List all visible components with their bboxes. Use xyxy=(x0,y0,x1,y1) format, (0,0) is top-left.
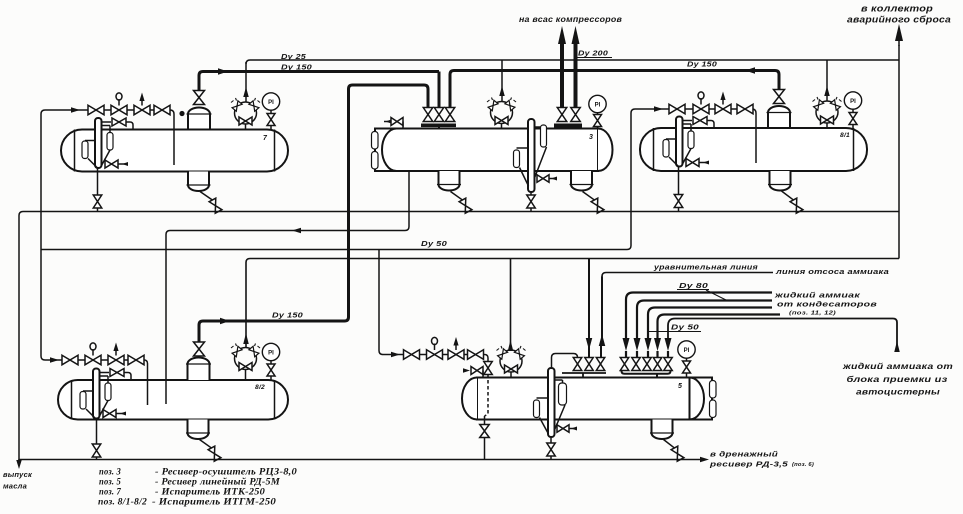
wire: v7 bottom dome drain xyxy=(200,192,213,201)
wire: equalizing drop into vessel 5 xyxy=(588,259,590,339)
nozzle dome: vessel 8/2 bottom xyxy=(188,420,209,440)
svg-text:- Ресивер-осушитель РЦЗ-8,0: - Ресивер-осушитель РЦЗ-8,0 xyxy=(155,467,297,477)
nozzle dome: vessel 7 top xyxy=(188,108,210,131)
wire: float gas line v8/1 xyxy=(683,120,693,122)
svg-text:уравнительная линия: уравнительная линия xyxy=(653,265,758,272)
valve: Dy200 riser 2 xyxy=(571,108,581,122)
svg-text:в коллектор: в коллектор xyxy=(861,4,933,14)
svg-text:(поз. 11, 12): (поз. 11, 12) xyxy=(789,311,836,317)
svg-text:Dy 150: Dy 150 xyxy=(281,65,312,72)
wire: condenser liquid line 4 xyxy=(658,315,781,340)
svg-text:жидкий аммиак: жидкий аммиак xyxy=(774,291,862,300)
valve: v8/2 feed 1 xyxy=(62,355,78,365)
svg-text:от кондесаторов: от кондесаторов xyxy=(777,300,877,309)
control valve: v7 feed xyxy=(111,105,127,115)
safety valves: vessel 3 xyxy=(491,102,513,124)
valve: v7 feed 1 xyxy=(88,105,104,115)
valve: Dy200 riser 1 xyxy=(557,108,567,122)
svg-text:масла: масла xyxy=(3,484,27,491)
valve: PI vessel 5 xyxy=(683,361,691,373)
valve: float gas v8/1 xyxy=(693,117,707,125)
wire: riser b xyxy=(438,72,441,109)
wire: Dy25 safety collector header xyxy=(246,60,899,64)
wire+valve: v3 right dome drain xyxy=(583,192,595,201)
nozzle dome: vessel 5 bottom xyxy=(652,420,673,440)
float column vessel 5 xyxy=(548,368,555,437)
arrow: to emergency dump collector xyxy=(898,40,900,46)
valve: vessel 3 inlet riser a xyxy=(423,108,433,122)
wire: drain header line A to oil release xyxy=(19,212,899,462)
arrow: oil release down xyxy=(18,459,20,462)
valve with actuator: v8/2 feed xyxy=(108,355,124,365)
valve: float feed stub v8/1 xyxy=(686,159,699,167)
valve: v8/2 feed 2 xyxy=(128,355,144,365)
gauge PI vessel 8/1 xyxy=(844,92,861,109)
arrow: feed flow right v8/1 xyxy=(654,106,663,112)
nozzle dome: vessel 8/1 top xyxy=(768,106,790,129)
arrow: to drainage receiver xyxy=(700,457,709,463)
header: left manifold xyxy=(562,372,606,374)
wire: equalizing line E1 xyxy=(246,259,899,348)
wire: Dy200 riser 2 xyxy=(574,44,578,108)
arrow: flow left on Dy150 right xyxy=(745,67,755,74)
svg-text:Dy 150: Dy 150 xyxy=(272,313,303,320)
svg-text:Dy 150: Dy 150 xyxy=(687,62,717,69)
svg-text:Dy 200: Dy 200 xyxy=(578,51,608,58)
svg-text:Dy 25: Dy 25 xyxy=(281,54,306,61)
wire: Dy50 liquid header line C xyxy=(41,246,631,250)
control valve: v5 feed xyxy=(427,350,443,360)
valve: float feed stub v7 xyxy=(105,160,118,168)
valve: vessel 8/2 suction xyxy=(194,342,205,356)
arrow: feed flow right v8/2 xyxy=(50,357,59,363)
valve: vessel 3 top stub xyxy=(384,121,391,123)
vessel 7 body (evaporator ITK-250) xyxy=(61,130,288,172)
wire: v8/1 float drain xyxy=(678,167,680,212)
svg-text:PI: PI xyxy=(850,99,856,105)
wire: v5 left drain xyxy=(484,416,486,460)
float chamber internals vessel 7 xyxy=(95,118,102,168)
wire: ammonia suction line E2 xyxy=(601,277,603,345)
wire: bottom drain header line D xyxy=(19,459,700,461)
header: vessel 3 suction outlet xyxy=(554,124,582,128)
svg-text:поз. 8/1-8/2: поз. 8/1-8/2 xyxy=(98,497,147,507)
wire: v8/2 float drain xyxy=(96,418,98,460)
safety valves: vessel 7 xyxy=(235,102,257,124)
valve: PI vessel 7 xyxy=(267,114,275,126)
svg-text:5: 5 xyxy=(678,383,682,390)
wire: Dy150 suction vessel 8/2 xyxy=(199,317,349,342)
wire: thin riser from vessel 8/2 suction to vessel 3 xyxy=(349,85,429,317)
nozzle dome: vessel 3 bottom right xyxy=(571,171,592,191)
wire: float gas line v7 xyxy=(102,121,112,123)
arrow: v8/2 safety outlet up xyxy=(243,333,249,344)
wire: feed dip tube inside vessel 8/1 xyxy=(755,128,757,163)
wire+valve: v5 dome drain xyxy=(664,440,675,449)
control valve: v8/1 feed xyxy=(693,104,709,114)
wire: vessel 5 safety outlet xyxy=(510,259,512,350)
arrow: reception liquid up xyxy=(894,341,900,352)
svg-text:Dy 80: Dy 80 xyxy=(679,283,708,290)
wire: feed dip tubes inside vessel 8/2 xyxy=(147,380,149,405)
svg-text:PI: PI xyxy=(268,350,274,356)
vessel 8/2 body (evaporator ITGM-250) xyxy=(58,380,288,420)
gauge PI vessel 8/2 xyxy=(262,343,279,360)
svg-text:PI: PI xyxy=(268,100,274,106)
arrow: feed flow right v7 xyxy=(71,107,80,113)
wire: v5 feed dip tube xyxy=(485,380,489,416)
valve: v5 feed 2 xyxy=(468,350,484,360)
arrow: flow right on Dy150 xyxy=(218,68,228,75)
wire: float column link to manifold xyxy=(552,354,578,369)
valve: v5 feed entry xyxy=(484,362,493,375)
svg-text:линия отсоса аммиака: линия отсоса аммиака xyxy=(775,269,889,276)
svg-text:Dy 50: Dy 50 xyxy=(421,241,447,248)
wire: Dy150 suction line vessel 8/1 to vessel 3 xyxy=(450,71,779,109)
valve: v8/2 float drain xyxy=(92,444,101,457)
float chamber internals vessel 8/1 xyxy=(676,117,683,167)
vessel 3 body (receiver-dryer RCZ-8.0) xyxy=(375,129,598,172)
valve: v8/1 float drain xyxy=(674,195,683,208)
valve: v7 dome drain xyxy=(209,198,222,213)
valve: PI vessel 8/1 xyxy=(849,113,857,125)
arrow: safety outlet up v7 xyxy=(243,87,249,97)
wire: Dy50 liquid from reception block xyxy=(668,319,897,352)
arrow: safety outlet up v8/1 xyxy=(824,86,830,96)
float chamber internals vessel 8/2 xyxy=(93,369,100,419)
valve: v8/1 feed 2 xyxy=(737,104,753,114)
gauge PI vessel 7 xyxy=(262,93,279,110)
wire: liquid feed line to vessel 8/1 xyxy=(631,109,756,246)
valve: PI vessel 8/2 xyxy=(267,364,275,376)
svg-text:в дренажный: в дренажный xyxy=(710,450,778,459)
wire: collector riser to flare xyxy=(898,45,900,259)
svg-text:жидкий аммиака от: жидкий аммиака от xyxy=(842,361,954,371)
svg-text:(поз. 6): (поз. 6) xyxy=(792,462,814,468)
wire: vessel 3 safety outlet xyxy=(501,60,503,102)
wire+valve: v3 left dome drain xyxy=(451,192,463,201)
arrow: safety outlet up v3 xyxy=(499,86,505,96)
wire: v3 float drain xyxy=(530,192,532,212)
control valve: v8/2 feed xyxy=(85,355,101,365)
nozzle dome: vessel 8/2 top xyxy=(188,358,210,380)
valve: vessel 7 suction xyxy=(194,91,205,105)
valve: float gas v8/2 xyxy=(110,369,124,377)
vessel 8/1 body (evaporator ITGM-250) xyxy=(640,128,867,171)
nozzle dome: vessel 3 bottom left xyxy=(439,171,460,191)
valve: v8/1 feed 1 xyxy=(669,104,685,114)
header: vessel 3 inlet xyxy=(421,124,456,128)
valve with actuator: v8/1 feed xyxy=(715,104,731,114)
manifold right: valves on vessel 5 xyxy=(620,358,629,371)
float column vessel 3 xyxy=(528,119,535,192)
wire: Dy200 riser 1 xyxy=(560,44,564,108)
wire: liquid feed line to vessel 8/2 xyxy=(41,250,148,406)
nozzle dome: vessel 7 bottom xyxy=(188,172,209,192)
svg-text:3: 3 xyxy=(589,134,593,141)
wire: vessel 7 safety outlet xyxy=(245,62,247,103)
svg-text:выпуск: выпуск xyxy=(3,472,32,479)
header: right manifold xyxy=(622,370,671,374)
svg-text:блока приемки из: блока приемки из xyxy=(847,374,949,384)
safety valves: vessel 8/2 xyxy=(235,348,257,370)
wire: vessel 8/1 safety outlet xyxy=(826,60,828,102)
valve: vessel 3 inlet riser c xyxy=(449,103,452,108)
valve: vessel 5 top stub xyxy=(463,368,470,373)
svg-text:- Ресивер линейный РД-5М: - Ресивер линейный РД-5М xyxy=(155,477,281,487)
svg-text:Dy 50: Dy 50 xyxy=(671,325,699,332)
wire: Dy150 suction line vessel 7 to vessel 3 xyxy=(203,70,439,73)
head nozzles vessel 3 xyxy=(372,132,379,150)
valve: float feed stub v8/2 xyxy=(103,410,116,418)
wire: liquid feed line B from vessel 3 bottom xyxy=(166,171,409,404)
safety valves: vessel 5 xyxy=(500,350,522,372)
wire: condenser liquid line 3 xyxy=(648,308,772,340)
valve: float gas v7 xyxy=(112,118,126,126)
valve: v7 feed 2 xyxy=(154,105,170,115)
svg-text:PI: PI xyxy=(684,348,690,354)
wire+valve: v8/1 dome drain xyxy=(782,191,794,200)
arrow: flow right v8/2 suction xyxy=(220,318,230,325)
svg-text:PI: PI xyxy=(595,102,601,108)
vessel 5 body (linear receiver RD-5M) xyxy=(477,378,690,420)
gauge PI vessel 3 xyxy=(589,95,606,112)
svg-text:ресивер РД-3,5: ресивер РД-3,5 xyxy=(709,460,789,469)
svg-text:8/2: 8/2 xyxy=(255,385,266,391)
arrow: equalizing down into v5 xyxy=(586,338,593,350)
valve: v7 float drain xyxy=(93,195,102,208)
svg-text:8/1: 8/1 xyxy=(840,133,851,139)
valve: v5 left drain xyxy=(480,425,490,438)
junction dot on feed line xyxy=(179,111,184,116)
valve: v5 feed 1 xyxy=(404,350,420,360)
wire: condenser liquid line 1 xyxy=(626,293,772,340)
arrow: flow left on line B xyxy=(292,228,301,234)
svg-text:- Испаритель ИТК-250: - Испаритель ИТК-250 xyxy=(155,487,265,497)
valve: vessel 3 column stub xyxy=(537,175,549,183)
svg-text:поз. 7: поз. 7 xyxy=(99,487,121,497)
manifold left: valves on vessel 5 xyxy=(573,358,582,371)
valve: vessel 3 inlet riser b xyxy=(434,108,444,122)
wire: v5 float drain xyxy=(550,437,552,460)
valve: v3 float drain xyxy=(527,195,536,208)
head nozzles vessel 5 xyxy=(710,381,717,399)
svg-text:- Испаритель ИТГМ-250: - Испаритель ИТГМ-250 xyxy=(152,497,276,507)
arrow: v5 safety outlet up xyxy=(508,340,514,351)
svg-text:поз. 3: поз. 3 xyxy=(99,467,121,477)
wire+valve: v8/2 dome drain xyxy=(200,440,212,449)
wire: float gas line v8/2 xyxy=(100,372,110,374)
valve: PI vessel 3 xyxy=(594,115,602,127)
wire: v7 float drain xyxy=(97,168,99,212)
arrow: suction up from v5 xyxy=(599,334,606,346)
arrows: condenser lines down xyxy=(623,338,630,351)
valve: vessel 8/1 suction xyxy=(774,90,785,104)
arrow: feed flow right v5 xyxy=(391,352,400,358)
wire: condenser liquid line 2 xyxy=(637,301,772,340)
valve: v5 float drain xyxy=(547,443,556,456)
valve with actuator: v7 feed xyxy=(134,105,150,115)
svg-text:на всас компрессоров: на всас компрессоров xyxy=(519,15,622,24)
wire: feed dip tube inside vessel 7 xyxy=(173,130,175,166)
wire: liquid feed line to vessel 5 xyxy=(383,355,488,363)
safety valves: vessel 8/1 xyxy=(816,101,838,123)
svg-text:автоцистерны: автоцистерны xyxy=(856,387,940,397)
gauge PI vessel 5 xyxy=(678,341,695,358)
wire: liquid feed line to vessel 7 xyxy=(41,110,174,250)
wire: riser from header C to vessel 5 feed line xyxy=(379,250,383,355)
svg-text:поз. 5: поз. 5 xyxy=(99,477,121,487)
svg-text:аварийного сброса: аварийного сброса xyxy=(847,14,951,24)
valve with actuator: v5 feed xyxy=(448,350,464,360)
valve: vessel 5 column stub xyxy=(557,425,569,433)
nozzle dome: vessel 8/1 bottom xyxy=(770,171,791,191)
